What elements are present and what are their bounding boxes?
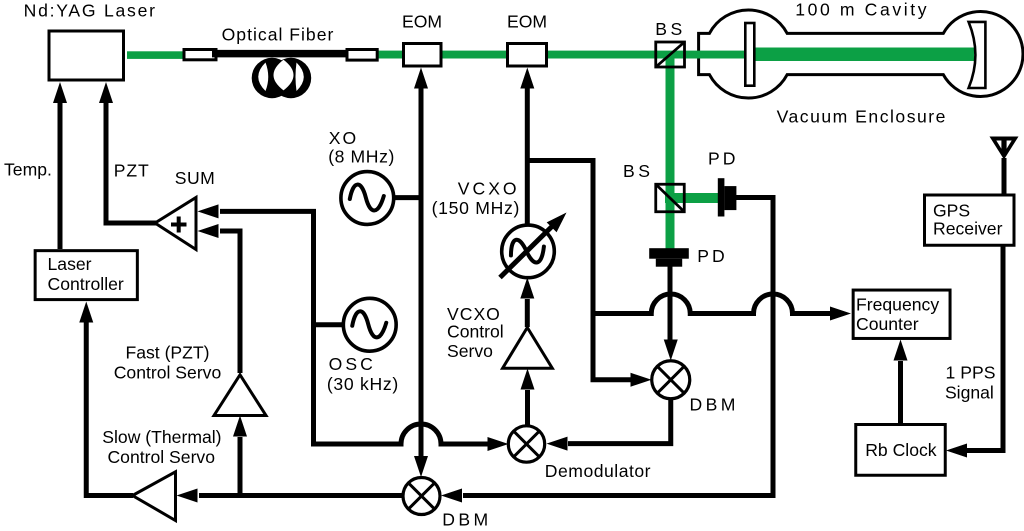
EOM 1 box: [404, 44, 442, 67]
wire VCXO servo to VCXO: [520, 278, 534, 328]
label GPS Receiver: [933, 201, 1003, 239]
beam BS2 to PD: [665, 193, 719, 203]
label Frequency Counter: [856, 295, 939, 334]
svg-text:VCXO: VCXO: [458, 179, 520, 199]
svg-text:Signal: Signal: [945, 382, 994, 402]
optical beam EOM2 to cavity flat mirror: [548, 51, 746, 59]
optical beam coupler2 to EOM1: [378, 51, 403, 59]
svg-text:BS: BS: [623, 161, 653, 181]
svg-text:(8 MHz): (8 MHz): [328, 147, 395, 167]
wire DBM2 to demodulator: [547, 398, 671, 451]
svg-text:Optical Fiber: Optical Fiber: [222, 25, 335, 45]
wire demodulator to VCXO servo: [521, 369, 535, 426]
wire OSC trunk to SUM input and demodulator: [198, 204, 509, 451]
svg-text:EOM: EOM: [402, 12, 442, 32]
svg-text:(150 MHz): (150 MHz): [432, 198, 520, 218]
beamsplitter BS2: [656, 184, 685, 212]
GPS antenna: [990, 137, 1019, 195]
svg-text:SUM: SUM: [175, 168, 215, 188]
wire to frequency counter with hops: [592, 294, 851, 321]
Nd:YAG laser box: [49, 31, 124, 80]
wire VCXO to EOM2 drive with tap to DBM2: [520, 68, 651, 387]
svg-text:OSC: OSC: [329, 354, 376, 374]
wire EOM1 drive line: [414, 68, 428, 478]
wire OSC tap: [314, 322, 345, 327]
optical beam laser to fiber coupler: [127, 51, 183, 59]
svg-text:EOM: EOM: [507, 12, 547, 32]
GPS receiver box: [925, 195, 1015, 245]
cavity flat mirror: [745, 23, 754, 86]
fiber coupler 1: [184, 50, 216, 60]
svg-text:Frequency: Frequency: [856, 295, 939, 315]
fiber coupler 2: [347, 50, 377, 61]
wire DBM1 output to servos: [177, 416, 403, 503]
svg-text:Controller: Controller: [48, 274, 124, 294]
svg-text:(30 kHz): (30 kHz): [327, 374, 399, 394]
svg-text:Laser: Laser: [48, 254, 92, 274]
svg-text:Slow (Thermal): Slow (Thermal): [102, 427, 221, 447]
wire laser controller to laser Temp input: [53, 82, 67, 249]
fiber line: [212, 50, 350, 58]
svg-text:Control Servo: Control Servo: [114, 362, 222, 382]
photodetector PD1: [718, 178, 737, 216]
beamsplitter BS1: [656, 42, 685, 67]
svg-text:XO: XO: [329, 128, 358, 148]
fast PZT control servo triangle: [214, 375, 266, 416]
label Laser Controller: [48, 254, 124, 294]
wire PD2 to DBM2: [664, 265, 678, 361]
svg-text:Demodulator: Demodulator: [545, 461, 651, 481]
arrowhead into DBM1 right: [441, 489, 462, 503]
wire XO output to EOM1 drive line: [393, 195, 421, 200]
VCXO control servo triangle: [503, 328, 553, 369]
label VCXO Control Servo: [447, 304, 504, 361]
svg-text:PD: PD: [697, 246, 727, 266]
wire fast servo output to SUM input: [198, 224, 241, 373]
EOM 2 box: [508, 44, 547, 67]
laser controller box: [35, 251, 137, 300]
mixer demodulator: [508, 426, 544, 462]
wire slow servo to laser controller: [79, 302, 133, 496]
svg-text:BS: BS: [655, 19, 685, 39]
frequency counter box: [853, 290, 950, 338]
slow thermal control servo triangle: [133, 472, 176, 521]
fiber coil: [252, 58, 312, 98]
vacuum enclosure outline: [699, 10, 1023, 98]
wire SUM output to laser PZT input: [99, 82, 156, 223]
Rb clock box: [856, 425, 946, 476]
svg-text:Temp.: Temp.: [4, 160, 52, 180]
svg-text:Nd:YAG Laser: Nd:YAG Laser: [24, 1, 157, 21]
summing amplifier SUM: [155, 198, 196, 250]
beam BS1 down to PD: [666, 51, 675, 250]
svg-text:Fast (PZT): Fast (PZT): [125, 343, 209, 363]
svg-text:Rb Clock: Rb Clock: [865, 440, 937, 460]
svg-text:Control Servo: Control Servo: [107, 447, 215, 467]
plus sign in SUM: [171, 217, 187, 233]
optical beam EOM1 to EOM2: [442, 51, 507, 59]
oscillator XO: [341, 172, 394, 225]
intracavity beam: [753, 48, 974, 62]
svg-text:DBM: DBM: [690, 395, 739, 415]
svg-text:PZT: PZT: [114, 161, 150, 181]
oscillator OSC: [343, 298, 396, 351]
oscillator VCXO: [500, 213, 567, 278]
cavity curved mirror: [969, 22, 986, 88]
svg-text:PD: PD: [708, 148, 738, 168]
wire Rb clock to frequency counter: [894, 340, 908, 424]
mixer DBM1: [403, 478, 440, 515]
svg-text:DBM: DBM: [442, 510, 491, 530]
photodetector PD2: [649, 248, 689, 267]
svg-text:Receiver: Receiver: [933, 218, 1003, 238]
mixer DBM2: [652, 361, 690, 399]
svg-text:Vacuum Enclosure: Vacuum Enclosure: [777, 107, 947, 127]
svg-text:Counter: Counter: [856, 314, 919, 334]
svg-text:100 m Cavity: 100 m Cavity: [795, 0, 929, 20]
svg-text:1 PPS: 1 PPS: [946, 363, 996, 383]
wire PD1 to frequency counter junction: [463, 198, 773, 496]
svg-text:Servo: Servo: [447, 341, 493, 361]
wire GPS to Rb clock: [946, 246, 1003, 458]
svg-text:Control: Control: [447, 321, 504, 341]
